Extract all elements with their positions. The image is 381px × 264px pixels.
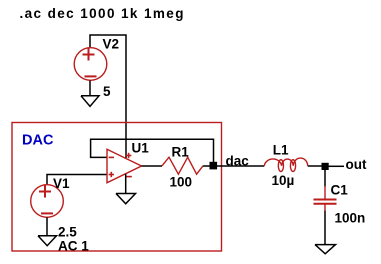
ground under V1: [38, 236, 57, 246]
node dac junction: [210, 162, 218, 170]
ground under opamp: [116, 194, 136, 204]
DAC box: [12, 123, 222, 252]
wire C1 to ground: [324, 211, 326, 245]
wire node out down to C1: [324, 170, 326, 187]
voltage source V2: [74, 48, 107, 81]
op-amp U1: [107, 149, 142, 183]
wire feedback from node dac to inverting input: [91, 139, 214, 162]
svg-text:100: 100: [170, 175, 193, 190]
svg-text:L1: L1: [273, 143, 289, 158]
wire L1 to node out: [308, 165, 322, 167]
node out junction: [322, 163, 329, 170]
svg-text:U1: U1: [132, 141, 150, 156]
svg-text:C1: C1: [331, 183, 349, 198]
wire V1 bottom: [46, 217, 48, 235]
wire opamp output to R1: [142, 165, 163, 167]
svg-text:5: 5: [103, 84, 111, 99]
svg-text:AC 1: AC 1: [58, 239, 89, 254]
svg-text:.ac dec 1000 1k 1meg: .ac dec 1000 1k 1meg: [20, 6, 185, 21]
wire node dac to L1: [217, 165, 264, 167]
svg-text:10µ: 10µ: [272, 173, 295, 188]
inductor L1: [264, 158, 307, 171]
resistor R1: [162, 157, 203, 174]
wire V2 top to opamp V+: [90, 35, 126, 158]
wire node out to label: [329, 165, 345, 167]
svg-text:100n: 100n: [335, 211, 366, 226]
wire V2 bottom: [89, 81, 91, 96]
capacitor C1: [314, 186, 337, 211]
svg-text:V2: V2: [103, 37, 120, 52]
svg-text:DAC: DAC: [22, 133, 54, 149]
wire R1 to node dac: [203, 165, 210, 167]
svg-text:R1: R1: [172, 145, 190, 160]
voltage source V1: [31, 185, 64, 218]
wire opamp V- to ground: [125, 174, 127, 193]
ground under V2: [81, 96, 99, 107]
ground under C1: [315, 245, 336, 254]
svg-text:V1: V1: [53, 176, 70, 191]
svg-text:out: out: [346, 157, 367, 172]
wire V1 to opamp noninverting input: [47, 175, 107, 186]
svg-text:2.5: 2.5: [58, 225, 77, 240]
